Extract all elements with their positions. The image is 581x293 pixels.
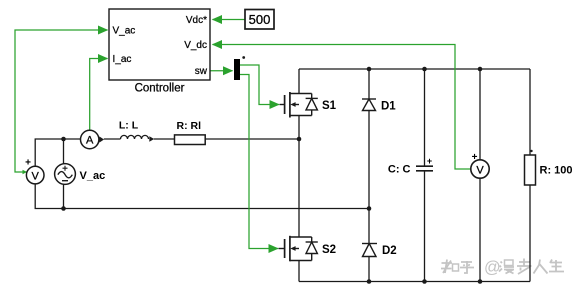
wire: mid rail to D2 [368,209,370,244]
junction: top bus / voltmeter [478,67,483,72]
svg-text:S2: S2 [322,244,336,256]
resistor label dot [530,150,532,152]
wire: ammeter to inductor [104,138,121,140]
wire: D2 to bottom bus [368,257,370,282]
svg-text:D2: D2 [382,245,397,257]
wire: 500 to Vdc* [213,19,246,21]
diode D2 [362,244,377,257]
svg-text:L: L: L: L [119,119,139,131]
wire: demux out2 to S2 gate [240,75,278,249]
svg-text:V_ac: V_ac [80,170,106,182]
demux label dot [242,56,245,59]
junction: source bottom node [61,206,66,211]
junction: bottom bus / voltmeter [478,279,483,284]
wire: S-leg drain from top bus [298,69,300,94]
wire: demux out1 to S1 gate [240,65,279,105]
漫 [499,262,502,272]
MOSFET S1 [280,92,318,118]
wire: S1 source to midpoint [298,116,300,140]
wire: D1 to mid rail [368,111,370,209]
wire: C-leg bottom [424,171,426,282]
junction: top bus / D1 [367,67,372,72]
svg-text:V: V [476,164,484,176]
voltmeter V2 (DC side) [471,160,489,178]
svg-text:V_ac: V_ac [113,26,136,37]
watermark 知乎@漫步人生 [441,259,564,275]
junction: top bus / C [422,67,427,72]
人 [534,260,548,274]
controller block U1 [109,9,210,95]
生 [549,260,564,272]
知 [441,260,452,274]
wire: R-leg bottom [529,185,531,282]
ammeter output chevron [99,136,104,142]
wire: bottom bus [299,281,530,283]
svg-text:R: 100: R: 100 [540,164,573,176]
inductor L coils [121,135,149,139]
svg-text:V_dc: V_dc [184,40,207,51]
svg-text:I_ac: I_ac [113,54,132,65]
svg-text:Vdc*: Vdc* [186,15,207,26]
arrowhead into V1 (measurement tap) [23,170,28,174]
svg-text:C: C: C: C [388,164,411,176]
wire: Vac top wire from voltmeter to ammeter [35,139,80,166]
wire: source top stub [63,139,65,164]
svg-text:A: A [86,135,94,147]
resistor Rl [175,135,206,145]
svg-text:S1: S1 [322,100,337,112]
wire: sw to demux [210,70,233,72]
wire: V_dc measurement to controller V_dc [213,45,471,170]
svg-text:Controller: Controller [135,83,185,95]
步 [517,259,532,275]
wire: midpoint down to S2 drain [298,139,300,237]
junction: bottom bus / D2 [367,279,372,284]
resistor R 100 [525,155,536,185]
wire: resistor Rl to bridge midpoint [205,138,299,140]
diode D1 [362,99,376,111]
demux [234,59,240,80]
wire: inductor to resistor Rl [154,138,175,140]
junction: bridge midpoint node [297,137,302,142]
svg-text:+: + [427,156,432,166]
wire: I_ac measurement to controller I_ac [90,59,108,131]
svg-text:+: + [472,152,478,163]
乎 [460,261,474,273]
wire: V_ac measurement to controller V_ac [15,30,108,172]
wire: V2-leg top [479,69,481,160]
svg-text:sw: sw [195,66,208,77]
ammeter A [81,130,99,148]
svg-text:R: Rl: R: Rl [177,120,202,132]
junction: bottom bus / C [422,279,427,284]
wire: S2 source down to bottom bus [298,261,300,282]
voltmeter V1 (AC side) [26,166,44,184]
source V_ac [55,164,76,185]
wire: C-leg top [424,69,426,166]
svg-text:V: V [32,170,40,182]
constant block 500 [245,10,274,30]
inductor arrow [149,136,154,142]
svg-text:@: @ [484,259,501,277]
green signal wires [15,20,471,249]
wire: R-leg top [529,69,531,155]
MOSFET S2 [279,236,318,261]
wire: D-leg top (bus to D1) [368,69,370,99]
wire: source bottom stub [63,185,65,209]
junction: mid rail / D-leg [367,206,372,211]
wire: V2-leg bottom [479,178,481,281]
junction: source top node [61,137,66,142]
wire: top bus [299,68,530,70]
svg-text:500: 500 [249,12,271,27]
wire: voltmeter bottom to rail [35,184,369,209]
svg-text:+: + [25,158,31,169]
capacitor C [416,166,433,171]
svg-text:D1: D1 [381,100,396,112]
